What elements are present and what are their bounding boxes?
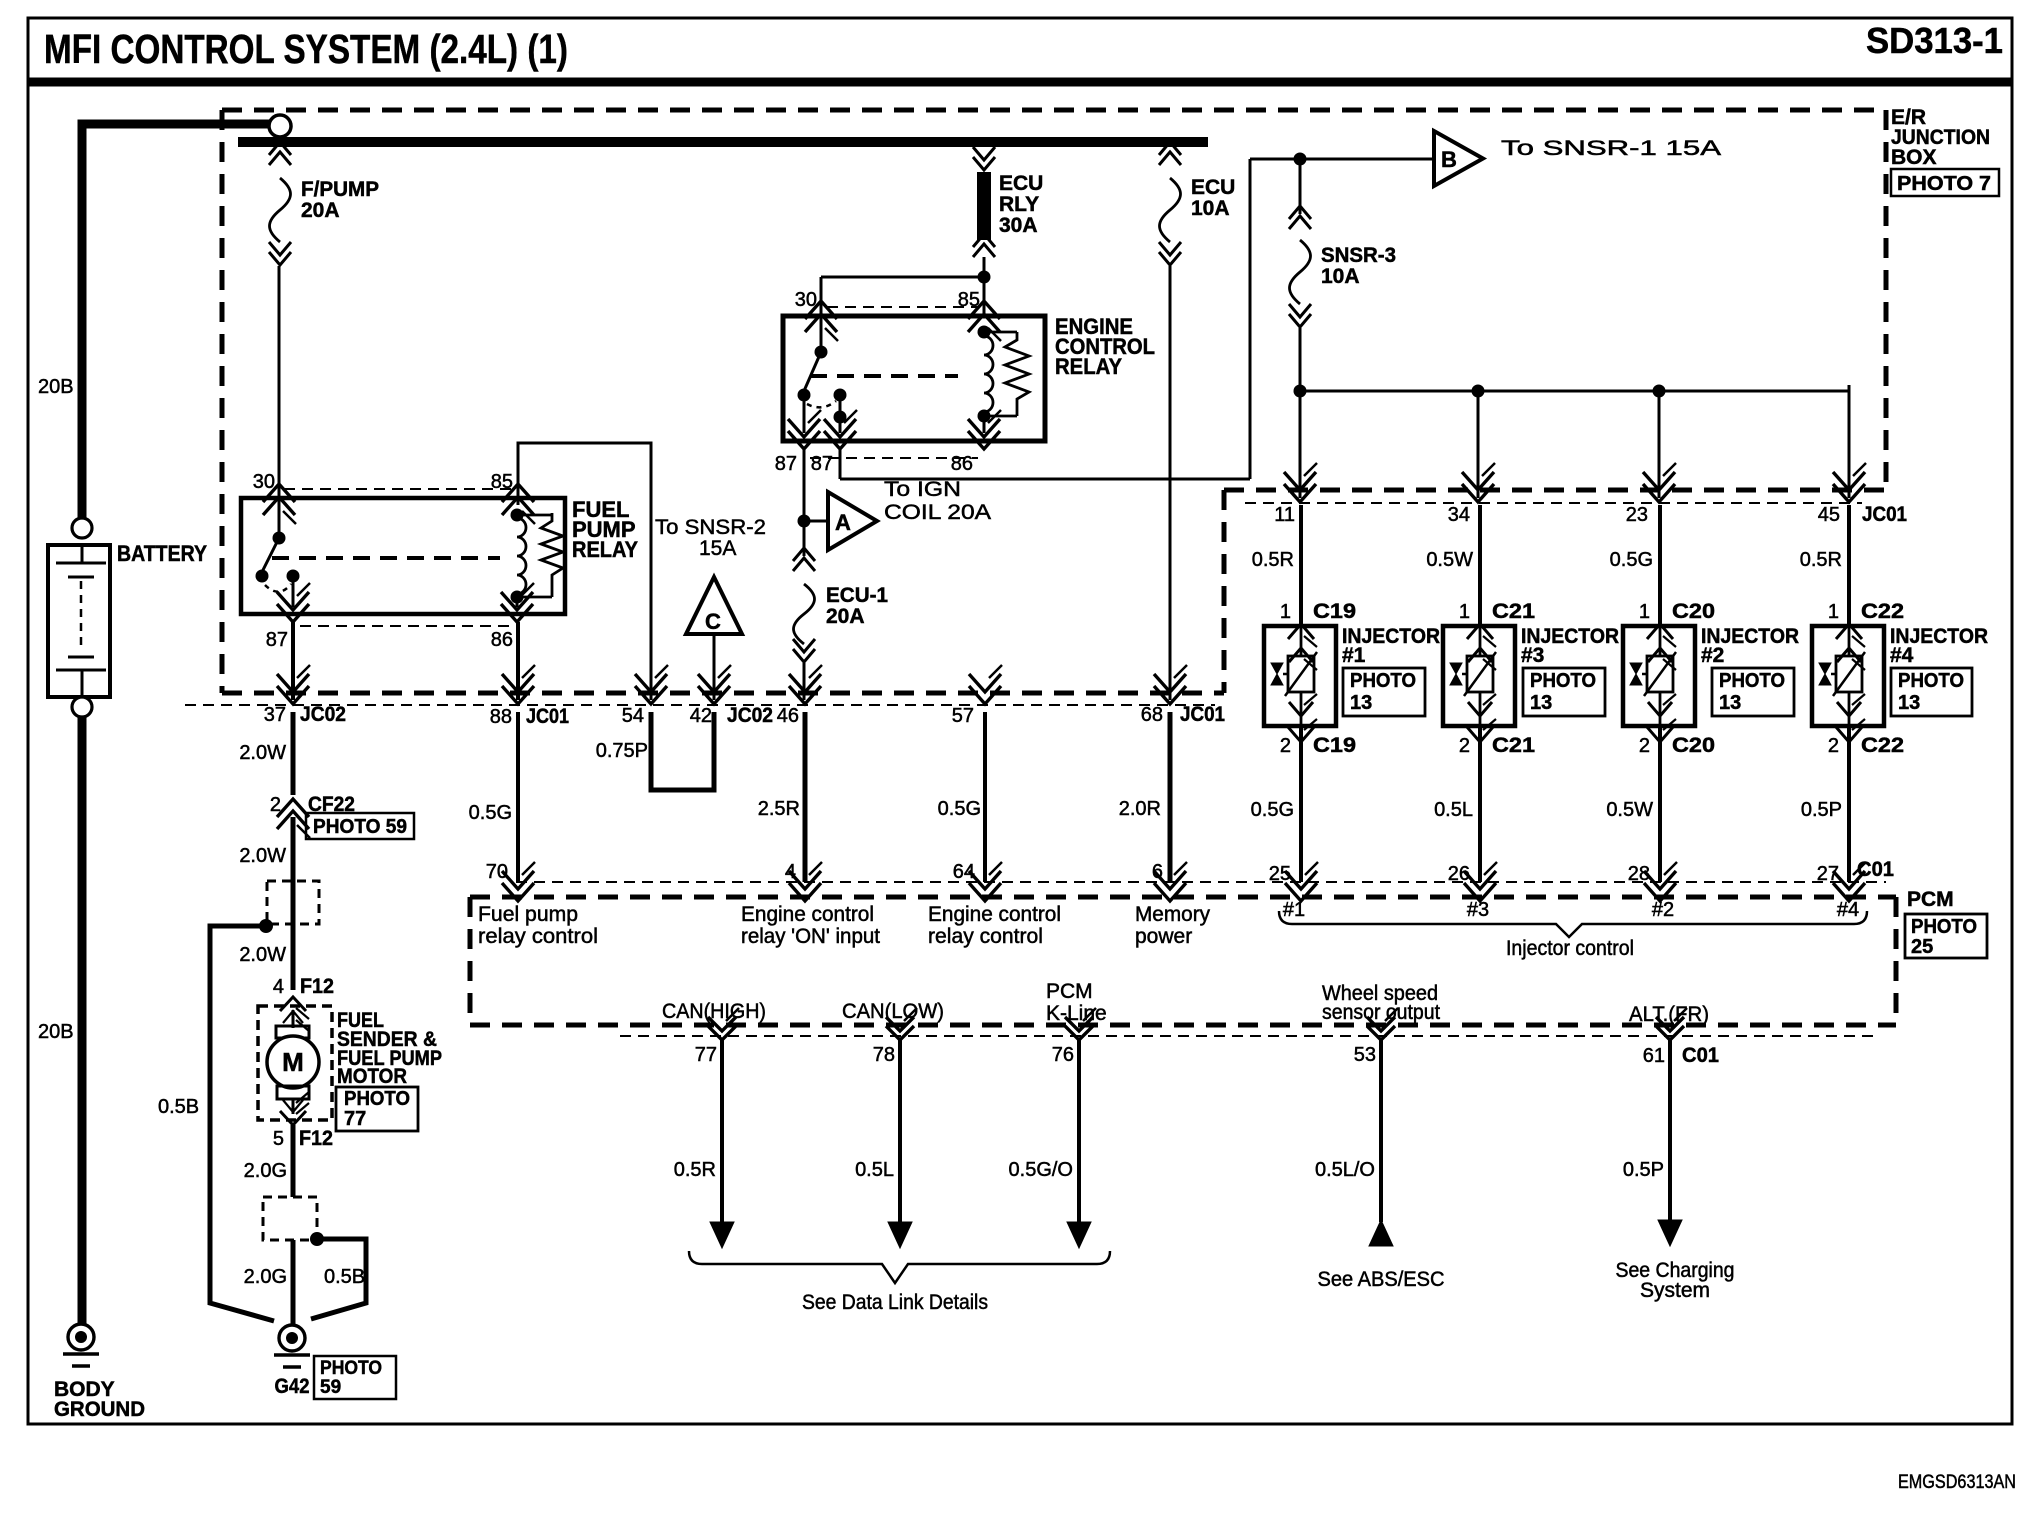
svg-text:1: 1 (1280, 601, 1291, 623)
svg-text:F12: F12 (300, 975, 334, 998)
svg-text:relay control: relay control (478, 925, 598, 948)
svg-text:PHOTO: PHOTO (1898, 670, 1964, 692)
svg-text:37: 37 (264, 704, 286, 726)
svg-text:13: 13 (1350, 692, 1372, 714)
svg-text:0.5L: 0.5L (855, 1159, 894, 1181)
svg-text:To IGN: To IGN (884, 478, 961, 501)
svg-text:PCM: PCM (1046, 980, 1093, 1003)
svg-text:10A: 10A (1191, 197, 1230, 220)
svg-text:78: 78 (873, 1044, 895, 1066)
svg-text:30: 30 (795, 289, 817, 311)
svg-text:F12: F12 (299, 1127, 333, 1150)
svg-text:5: 5 (273, 1128, 284, 1150)
svg-text:#1: #1 (1283, 899, 1305, 921)
svg-text:6: 6 (1152, 861, 1163, 883)
svg-text:power: power (1135, 925, 1192, 948)
svg-text:0.5G: 0.5G (1251, 799, 1294, 821)
svg-text:0.5R: 0.5R (1800, 549, 1842, 571)
svg-text:42: 42 (690, 705, 712, 727)
svg-text:77: 77 (695, 1044, 717, 1066)
svg-text:EMGSD6313AN: EMGSD6313AN (1898, 1472, 2016, 1493)
svg-text:68: 68 (1141, 704, 1163, 726)
svg-text:20B: 20B (38, 376, 74, 398)
svg-text:30A: 30A (999, 214, 1038, 237)
svg-text:20A: 20A (826, 605, 865, 628)
svg-text:23: 23 (1626, 504, 1648, 526)
svg-text:ECU-1: ECU-1 (826, 584, 888, 607)
svg-text:C20: C20 (1672, 734, 1715, 757)
svg-text:4: 4 (273, 976, 284, 998)
svg-text:ALT.(FR): ALT.(FR) (1629, 1003, 1709, 1026)
svg-text:0.5W: 0.5W (1426, 549, 1473, 571)
svg-text:0.5W: 0.5W (1606, 799, 1653, 821)
svg-text:25: 25 (1911, 936, 1933, 958)
svg-text:A: A (835, 510, 851, 535)
svg-text:sensor output: sensor output (1322, 1001, 1440, 1024)
svg-text:SD313-1: SD313-1 (1866, 20, 2003, 61)
svg-text:10A: 10A (1321, 265, 1360, 288)
svg-text:C19: C19 (1313, 734, 1356, 757)
svg-text:20B: 20B (38, 1021, 74, 1043)
svg-text:0.5G: 0.5G (938, 798, 981, 820)
svg-text:C01: C01 (1857, 858, 1894, 881)
svg-text:77: 77 (344, 1108, 366, 1130)
svg-text:11: 11 (1274, 504, 1295, 526)
svg-text:87: 87 (811, 453, 833, 475)
svg-text:87: 87 (266, 629, 288, 651)
svg-text:PHOTO: PHOTO (320, 1358, 382, 1379)
svg-text:0.75P: 0.75P (596, 740, 648, 762)
svg-text:#2: #2 (1701, 644, 1724, 667)
svg-text:2.0W: 2.0W (239, 944, 286, 966)
svg-text:0.5G/O: 0.5G/O (1009, 1159, 1073, 1181)
svg-text:59: 59 (320, 1377, 341, 1398)
svg-text:53: 53 (1354, 1044, 1376, 1066)
svg-text:C21: C21 (1492, 734, 1535, 757)
svg-text:Injector control: Injector control (1506, 937, 1634, 960)
svg-text:2.5R: 2.5R (758, 798, 800, 820)
svg-text:1: 1 (1828, 601, 1839, 623)
svg-text:0.5B: 0.5B (158, 1096, 199, 1118)
svg-text:4: 4 (785, 861, 796, 883)
svg-text:#4: #4 (1890, 644, 1914, 667)
svg-text:61: 61 (1643, 1045, 1665, 1067)
svg-text:CAN(LOW): CAN(LOW) (842, 1000, 944, 1023)
svg-text:0.5P: 0.5P (1623, 1159, 1664, 1181)
svg-text:GROUND: GROUND (54, 1398, 145, 1421)
svg-text:2: 2 (1459, 735, 1470, 757)
svg-text:relay 'ON' input: relay 'ON' input (741, 925, 880, 948)
svg-text:C21: C21 (1492, 600, 1535, 623)
svg-text:86: 86 (951, 453, 973, 475)
svg-text:#1: #1 (1342, 644, 1366, 667)
svg-text:2.0G: 2.0G (244, 1160, 287, 1182)
svg-text:2: 2 (1280, 735, 1291, 757)
svg-text:#3: #3 (1467, 899, 1489, 921)
svg-text:0.5G: 0.5G (469, 802, 512, 824)
svg-text:2.0G: 2.0G (244, 1266, 287, 1288)
svg-text:MFI CONTROL SYSTEM (2.4L) (1): MFI CONTROL SYSTEM (2.4L) (1) (44, 26, 568, 72)
svg-text:JC01: JC01 (1180, 703, 1225, 726)
svg-text:0.5L: 0.5L (1434, 799, 1473, 821)
svg-text:#2: #2 (1652, 899, 1674, 921)
svg-text:64: 64 (953, 861, 975, 883)
svg-text:#3: #3 (1521, 644, 1544, 667)
svg-text:G42: G42 (275, 1375, 310, 1398)
svg-text:PHOTO: PHOTO (1530, 670, 1596, 692)
svg-text:See ABS/ESC: See ABS/ESC (1318, 1268, 1445, 1291)
svg-text:JC01: JC01 (1862, 503, 1907, 526)
svg-text:relay control: relay control (928, 925, 1043, 948)
svg-text:COIL 20A: COIL 20A (884, 501, 991, 524)
svg-text:Memory: Memory (1135, 903, 1210, 926)
svg-text:20A: 20A (301, 199, 340, 222)
svg-text:ECU: ECU (999, 172, 1043, 195)
svg-text:BATTERY: BATTERY (117, 541, 207, 566)
svg-text:C01: C01 (1682, 1044, 1719, 1067)
svg-text:PHOTO: PHOTO (1719, 670, 1785, 692)
svg-text:B: B (1441, 147, 1457, 172)
svg-text:1: 1 (1459, 601, 1470, 623)
svg-text:SNSR-3: SNSR-3 (1321, 244, 1396, 267)
svg-text:46: 46 (777, 705, 799, 727)
svg-text:ECU: ECU (1191, 176, 1235, 199)
svg-text:RLY: RLY (999, 193, 1039, 216)
svg-text:57: 57 (952, 705, 974, 727)
svg-text:JC02: JC02 (727, 704, 773, 727)
svg-text:87: 87 (775, 453, 797, 475)
svg-text:54: 54 (622, 705, 644, 727)
svg-text:JC01: JC01 (526, 705, 569, 728)
svg-text:#4: #4 (1837, 899, 1859, 921)
svg-text:PHOTO 7: PHOTO 7 (1897, 173, 1991, 195)
svg-text:0.5B: 0.5B (324, 1266, 365, 1288)
svg-text:45: 45 (1818, 504, 1840, 526)
svg-text:30: 30 (253, 471, 275, 493)
svg-text:C22: C22 (1861, 734, 1904, 757)
svg-text:88: 88 (490, 706, 512, 728)
svg-text:2.0W: 2.0W (239, 742, 286, 764)
svg-text:0.5P: 0.5P (1801, 799, 1842, 821)
svg-text:15A: 15A (699, 537, 736, 560)
svg-text:C19: C19 (1313, 600, 1356, 623)
svg-text:PCM: PCM (1907, 888, 1954, 911)
svg-text:PHOTO: PHOTO (344, 1088, 410, 1110)
svg-text:K-Line: K-Line (1046, 1002, 1107, 1025)
svg-text:0.5G: 0.5G (1610, 549, 1653, 571)
svg-text:2: 2 (1828, 735, 1839, 757)
svg-text:C: C (705, 609, 721, 634)
svg-text:PHOTO 59: PHOTO 59 (313, 816, 407, 838)
svg-text:RELAY: RELAY (1055, 354, 1122, 379)
svg-text:0.5R: 0.5R (1252, 549, 1294, 571)
svg-text:13: 13 (1898, 692, 1920, 714)
svg-text:PHOTO: PHOTO (1350, 670, 1416, 692)
svg-text:0.5R: 0.5R (674, 1159, 716, 1181)
svg-text:2.0R: 2.0R (1119, 798, 1161, 820)
svg-text:F/PUMP: F/PUMP (301, 178, 379, 201)
svg-text:13: 13 (1530, 692, 1552, 714)
svg-text:86: 86 (491, 629, 513, 651)
svg-text:JC02: JC02 (300, 703, 346, 726)
svg-text:76: 76 (1052, 1044, 1074, 1066)
svg-text:1: 1 (1639, 601, 1650, 623)
svg-text:CAN(HIGH): CAN(HIGH) (662, 1000, 766, 1023)
svg-text:0.5L/O: 0.5L/O (1315, 1159, 1375, 1181)
svg-text:Engine control: Engine control (928, 903, 1061, 926)
svg-text:MOTOR: MOTOR (337, 1065, 407, 1088)
svg-text:85: 85 (491, 471, 513, 493)
svg-text:BOX: BOX (1891, 146, 1937, 169)
svg-text:M: M (282, 1047, 304, 1077)
svg-text:Engine control: Engine control (741, 903, 874, 926)
svg-text:85: 85 (958, 289, 980, 311)
svg-text:System: System (1640, 1279, 1710, 1302)
svg-text:2: 2 (270, 794, 281, 816)
svg-text:See Data Link Details: See Data Link Details (802, 1291, 988, 1314)
svg-text:RELAY: RELAY (572, 537, 638, 562)
svg-text:2: 2 (1639, 735, 1650, 757)
svg-text:Fuel pump: Fuel pump (478, 903, 578, 926)
svg-text:C20: C20 (1672, 600, 1715, 623)
svg-text:70: 70 (486, 861, 508, 883)
svg-text:C22: C22 (1861, 600, 1904, 623)
svg-text:To SNSR-2: To SNSR-2 (655, 516, 766, 539)
svg-text:To SNSR-1 15A: To SNSR-1 15A (1501, 137, 1721, 160)
svg-text:2.0W: 2.0W (239, 845, 286, 867)
svg-text:PHOTO: PHOTO (1911, 916, 1977, 938)
svg-text:13: 13 (1719, 692, 1741, 714)
svg-text:34: 34 (1448, 504, 1470, 526)
